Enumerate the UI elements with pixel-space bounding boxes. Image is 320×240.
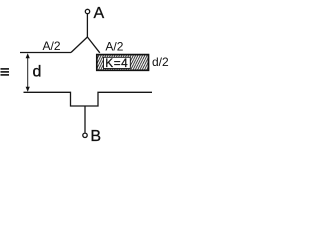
svg-text:A: A [94,5,105,22]
svg-text:d: d [33,64,42,81]
svg-text:A/2: A/2 [43,39,61,53]
svg-text:A/2: A/2 [105,40,123,54]
svg-text:d/2: d/2 [152,55,169,69]
svg-text:K=4: K=4 [105,56,128,70]
svg-text:B: B [90,128,101,145]
